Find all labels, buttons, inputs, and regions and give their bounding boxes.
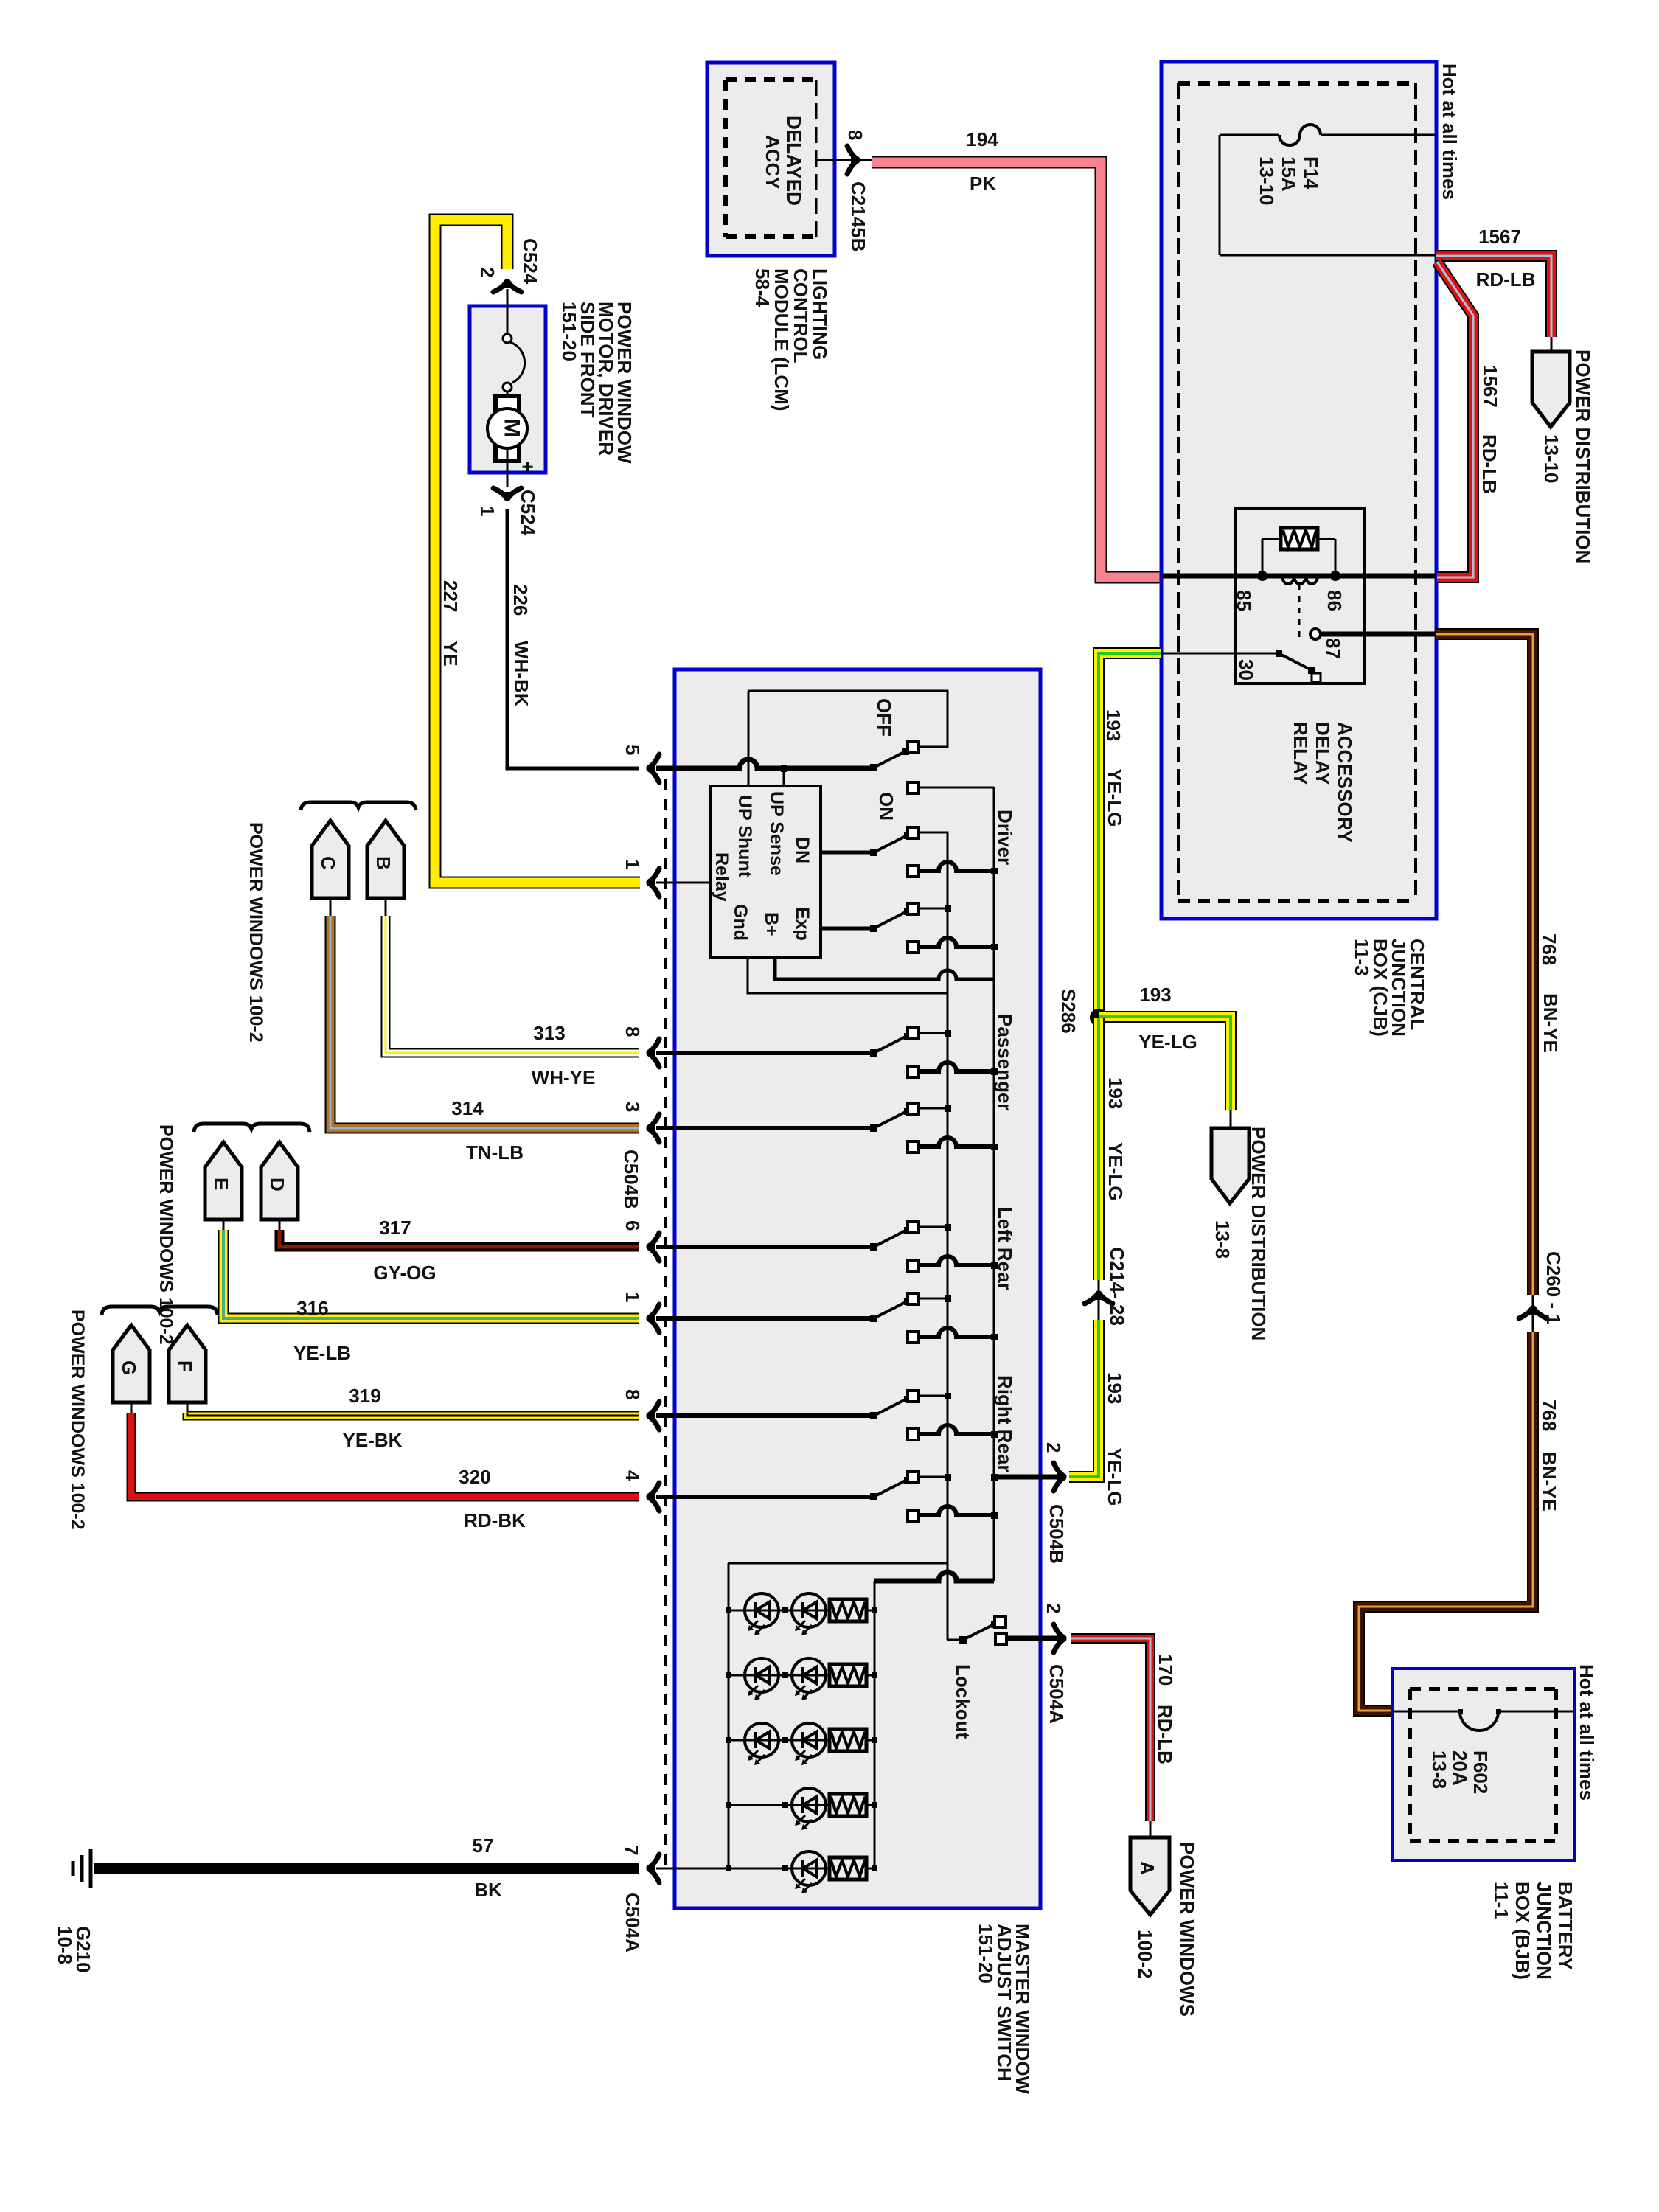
svg-text:C524: C524: [519, 238, 541, 285]
svg-text:20A: 20A: [1449, 1750, 1471, 1786]
motor M symbol: [495, 396, 519, 461]
switch up contact: [908, 1293, 919, 1304]
C260-1 connector lead: [1532, 1295, 1534, 1332]
down contact wire to feed bus: [919, 938, 994, 947]
feed bus (B+): [993, 787, 995, 1581]
switch up contact: [908, 827, 919, 838]
pin 2 C504B wire from feed bus: [994, 1475, 1063, 1480]
switch up contact: [908, 1028, 919, 1039]
pin 1 arrow C524: [493, 488, 507, 498]
brace over connectors G and F: [102, 1307, 218, 1315]
svg-text:B: B: [372, 856, 394, 870]
wire 193 YE-LG branch to power distribution: [1099, 1017, 1231, 1110]
svg-text:13-8: 13-8: [1211, 1220, 1234, 1259]
svg-text:ON: ON: [875, 792, 897, 821]
svg-text:314: 314: [451, 1097, 484, 1119]
connector G: [113, 1325, 150, 1402]
svg-text:B+: B+: [761, 912, 782, 936]
connector F: [169, 1325, 206, 1402]
up contact wire to ground bus: [919, 1032, 947, 1034]
svg-text:Relay: Relay: [712, 852, 732, 902]
OFF contact: [908, 742, 919, 753]
relay coil wire 85-86: [1161, 574, 1436, 579]
svg-text:UP Sense: UP Sense: [766, 791, 787, 876]
svg-text:DELAYED: DELAYED: [783, 116, 805, 206]
svg-text:RD-LB: RD-LB: [1478, 434, 1500, 494]
ground bus branch to LEDs: [728, 1562, 947, 1565]
svg-text:G: G: [118, 1360, 140, 1375]
svg-text:2: 2: [1043, 1603, 1065, 1613]
master window adjust switch box: [675, 669, 1040, 1908]
svg-text:YE-LG: YE-LG: [1104, 1447, 1126, 1506]
wire 193 YE-LG main down to C214: [1093, 1018, 1105, 1280]
relay contact 30 terminal: [1312, 673, 1321, 682]
wire 313 WH-YE: [386, 916, 639, 1053]
svg-text:DN: DN: [792, 837, 813, 863]
svg-text:768: 768: [1538, 933, 1560, 965]
motor circuit breaker: [507, 306, 509, 334]
svg-text:DELAY: DELAY: [1312, 722, 1334, 785]
LCM pin 8 lead: [816, 159, 872, 161]
svg-text:S286: S286: [1057, 989, 1079, 1034]
LED indicator 5: [792, 1851, 826, 1885]
svg-text:87: 87: [1322, 638, 1344, 659]
svg-text:11-3: 11-3: [1351, 939, 1373, 976]
LED right bus: [874, 1581, 876, 1868]
svg-text:TN-LB: TN-LB: [466, 1141, 524, 1164]
LED row 3 wire: [728, 1739, 874, 1742]
svg-text:193: 193: [1102, 709, 1124, 741]
LED resistor 4: [829, 1794, 866, 1816]
svg-text:2: 2: [1043, 1442, 1065, 1453]
switch arm pivot: [870, 1243, 877, 1251]
wire 1567 RD-LB to relay 86: [1437, 262, 1473, 577]
svg-text:13-8: 13-8: [1428, 1750, 1450, 1789]
pin 8 arrow C2145B: [847, 146, 858, 159]
svg-text:7: 7: [620, 1845, 642, 1855]
switch arm pivot: [870, 1124, 877, 1132]
fuse F14 15A 13-10: [1219, 135, 1221, 255]
svg-text:11-1: 11-1: [1490, 1882, 1512, 1919]
LED indicator 1b: [792, 1593, 826, 1627]
motor pin 1 lead: [507, 473, 509, 487]
down contact wire to feed bus: [919, 862, 994, 871]
svg-text:WH-BK: WH-BK: [510, 641, 532, 707]
electronics Exp output: [821, 927, 874, 931]
svg-text:8: 8: [622, 1026, 644, 1037]
wire 193 YE-LG to master switch pin 2: [1069, 1320, 1099, 1477]
svg-text:151-20: 151-20: [975, 1924, 997, 1983]
svg-text:UP Shunt: UP Shunt: [734, 795, 755, 878]
connector dashed line C504: [664, 779, 667, 1868]
svg-text:OFF: OFF: [873, 698, 895, 737]
ON contact: [908, 782, 919, 793]
LED row 2 wire: [728, 1674, 874, 1677]
LED indicator 1a: [745, 1593, 779, 1627]
connector E lead: [223, 1219, 225, 1230]
central junction box (CJB): [1161, 62, 1436, 919]
motor pin 2 lead: [507, 289, 509, 306]
svg-text:Hot at all times: Hot at all times: [1439, 63, 1461, 200]
ground bus: [947, 833, 949, 1640]
switch arm pivot: [870, 1493, 877, 1500]
battery junction box (BJB): [1392, 1669, 1574, 1860]
LED left bus: [728, 1563, 730, 1868]
svg-text:13-10: 13-10: [1540, 434, 1562, 484]
svg-text:POWER WINDOWS: POWER WINDOWS: [1176, 1842, 1198, 2017]
svg-text:319: 319: [349, 1385, 380, 1407]
svg-text:RELAY: RELAY: [1290, 722, 1312, 785]
switch up contact: [908, 1472, 919, 1483]
svg-text:15A: 15A: [1278, 156, 1300, 192]
svg-text:1567: 1567: [1479, 365, 1501, 408]
C214-28 arrow: [1085, 1293, 1098, 1304]
svg-text:BATTERY: BATTERY: [1554, 1882, 1576, 1970]
lockout switch: [947, 1639, 963, 1641]
electronics Gnd wire to ground bus: [748, 957, 947, 993]
relay switch arm: [1279, 653, 1312, 670]
relay coil bumps: [1282, 576, 1318, 584]
svg-text:POWER DISTRIBUTION: POWER DISTRIBUTION: [1572, 349, 1594, 563]
svg-text:316: 316: [296, 1297, 328, 1319]
svg-text:C504A: C504A: [1046, 1664, 1068, 1724]
relay actuator dashed line: [1298, 584, 1301, 643]
LED row 5 wire: [728, 1868, 874, 1870]
svg-text:85: 85: [1233, 590, 1255, 611]
pin 1 arrow: [649, 869, 659, 882]
svg-text:Gnd: Gnd: [730, 904, 751, 941]
relay contact 87: [1310, 629, 1321, 639]
svg-text:WH-YE: WH-YE: [532, 1066, 596, 1088]
wire 1567 RD-LB to power distribution: [1436, 256, 1551, 337]
svg-text:C2145B: C2145B: [847, 181, 869, 251]
wire 194 PK: [872, 162, 1161, 577]
wire 320 RD-BK: [131, 1413, 639, 1497]
svg-text:320: 320: [459, 1466, 490, 1488]
svg-text:Passenger: Passenger: [994, 1014, 1016, 1111]
svg-text:YE-LG: YE-LG: [1138, 1031, 1197, 1053]
up contact wire to ground bus: [919, 1395, 947, 1397]
svg-text:13-10: 13-10: [1256, 156, 1278, 206]
accessory delay relay box: [1235, 509, 1364, 684]
electronics B+ wire to feed bus: [775, 957, 994, 979]
switch down contact: [908, 1510, 919, 1521]
switch down contact: [908, 1429, 919, 1440]
svg-text:227: 227: [439, 580, 462, 612]
relay coil node 86: [1330, 571, 1340, 581]
LED resistor 1: [829, 1599, 866, 1621]
connector C: [312, 821, 349, 898]
LED resistor 3: [829, 1729, 866, 1751]
svg-text:58-4: 58-4: [751, 268, 773, 307]
wire 227 YE: [435, 220, 640, 883]
pin 2 arrow C504B: [1054, 1463, 1064, 1476]
C260-1 arrow: [1519, 1308, 1532, 1318]
relay shunt resistor: [1262, 539, 1264, 576]
switch down contact: [908, 1260, 919, 1271]
wire 226 WH-BK: [507, 509, 639, 768]
svg-text:1: 1: [622, 1292, 644, 1302]
svg-text:RD-LB: RD-LB: [1154, 1705, 1176, 1764]
svg-text:POWER WINDOWS 100-2: POWER WINDOWS 100-2: [67, 1310, 88, 1530]
switch pin 1 wire entry: [656, 1316, 874, 1321]
svg-text:POWER DISTRIBUTION: POWER DISTRIBUTION: [1248, 1127, 1270, 1340]
pin 7 arrow C504A: [649, 1854, 659, 1868]
svg-text:Exp: Exp: [792, 907, 813, 941]
brace over connectors E and D: [194, 1124, 310, 1132]
switch up contact: [908, 1222, 919, 1233]
svg-text:JUNCTION: JUNCTION: [1533, 1882, 1555, 1980]
switch down contact: [908, 1332, 919, 1343]
switch down contact: [908, 1066, 919, 1077]
brace over connectors C and B: [301, 802, 416, 810]
switch down contact: [908, 1141, 919, 1152]
up contact wire to ground bus: [919, 908, 947, 910]
pin 2 arrow C524: [493, 282, 507, 292]
svg-text:ACCESSORY: ACCESSORY: [1334, 722, 1356, 843]
svg-text:86: 86: [1324, 590, 1346, 611]
svg-text:BN-YE: BN-YE: [1538, 1452, 1560, 1512]
wire 319 YE-BK: [187, 1413, 639, 1416]
BJB inner dashed outline: [1410, 1687, 1556, 1691]
svg-text:C504A: C504A: [622, 1893, 644, 1952]
power windows connector A: [1130, 1837, 1169, 1915]
svg-text:3: 3: [622, 1102, 644, 1112]
splice S286: [1090, 1009, 1107, 1026]
switch up contact: [908, 1103, 919, 1114]
svg-text:6: 6: [622, 1220, 644, 1231]
power window motor box: [470, 306, 546, 473]
svg-text:151-20: 151-20: [558, 302, 580, 361]
svg-text:193: 193: [1104, 1372, 1126, 1404]
switch up contact: [908, 1391, 919, 1402]
svg-text:193: 193: [1105, 1077, 1127, 1109]
svg-text:RD-LB: RD-LB: [1476, 268, 1536, 291]
connector E: [205, 1142, 242, 1220]
down contact wire to feed bus: [919, 1138, 994, 1147]
switch arm pivot: [870, 1412, 877, 1419]
svg-text:POWER WINDOWS 100-2: POWER WINDOWS 100-2: [246, 822, 266, 1043]
wire 768 BN-YE upper: [1436, 634, 1533, 1295]
relay switch common 30: [1161, 653, 1279, 655]
svg-text:C214- 28: C214- 28: [1106, 1247, 1128, 1326]
svg-text:100-2: 100-2: [1134, 1930, 1156, 1979]
pin 5 entry: [649, 754, 659, 768]
switch pin 3 wire entry: [656, 1126, 874, 1130]
connector C lead: [330, 898, 332, 916]
switch down contact: [908, 942, 919, 953]
OFF loop wire: [748, 691, 947, 747]
up contact wire to ground bus: [919, 1226, 947, 1228]
switch electronics box: [711, 786, 821, 957]
LED indicator 2b: [792, 1658, 826, 1692]
switch pin 8 wire entry: [656, 1051, 874, 1055]
svg-text:Right Rear: Right Rear: [994, 1375, 1016, 1472]
up contact wire to ground bus: [919, 1298, 947, 1300]
svg-text:A: A: [1136, 1861, 1158, 1875]
svg-text:YE-LB: YE-LB: [293, 1342, 351, 1364]
svg-text:YE-LG: YE-LG: [1104, 768, 1126, 827]
LED indicator 2a: [745, 1658, 779, 1692]
LED row 1 wire: [728, 1610, 874, 1612]
LED indicator 3a: [745, 1723, 779, 1757]
down contact wire to feed bus: [919, 1256, 994, 1265]
LED resistor 2: [829, 1664, 866, 1686]
svg-text:8: 8: [622, 1389, 644, 1399]
svg-text:BOX (BJB): BOX (BJB): [1512, 1882, 1534, 1980]
svg-text:YE-BK: YE-BK: [343, 1429, 403, 1451]
LED resistor 5: [829, 1857, 866, 1879]
svg-text:YE: YE: [439, 641, 462, 667]
fuse F602 20A 13-8: [1392, 1711, 1460, 1713]
wire 316 YE-LB: [223, 1230, 639, 1318]
wire 314 TN-LB: [330, 916, 639, 1128]
LED indicator 4: [792, 1788, 826, 1822]
switch arm pivot: [870, 1049, 877, 1057]
svg-text:F14: F14: [1300, 156, 1322, 189]
svg-text:317: 317: [379, 1217, 411, 1239]
LED indicator 3b: [792, 1723, 826, 1757]
svg-text:F: F: [174, 1360, 196, 1372]
svg-text:F602: F602: [1470, 1750, 1492, 1794]
lighting control module (LCM) box: [707, 63, 835, 256]
switch pin 6 wire entry: [656, 1245, 874, 1249]
svg-text:D: D: [266, 1178, 288, 1192]
connector F lead: [187, 1402, 189, 1413]
relay coil node 85: [1257, 571, 1267, 581]
CJB inner dashed outline: [1178, 81, 1416, 86]
svg-text:2: 2: [476, 267, 498, 277]
svg-text:10-8: 10-8: [54, 1926, 76, 1964]
svg-text:Lockout: Lockout: [952, 1664, 974, 1739]
pin 2 arrow C504A: [1054, 1624, 1064, 1638]
feed bus extension to resistors: [874, 1572, 994, 1581]
switch arm pivot: [870, 849, 877, 856]
svg-text:Left Rear: Left Rear: [994, 1207, 1016, 1290]
electronics Relay output: [821, 851, 874, 855]
svg-text:313: 313: [533, 1022, 565, 1044]
svg-text:226: 226: [509, 584, 532, 616]
svg-text:193: 193: [1139, 984, 1171, 1006]
svg-text:4: 4: [622, 1470, 644, 1481]
svg-text:ACCY: ACCY: [762, 135, 784, 189]
svg-text:BK: BK: [474, 1879, 502, 1901]
connector D lead: [279, 1219, 281, 1230]
svg-text:C504B: C504B: [1046, 1504, 1068, 1564]
switch up contact: [908, 903, 919, 914]
C214-28 connector lead: [1098, 1280, 1100, 1320]
svg-text:170: 170: [1155, 1654, 1177, 1686]
svg-text:C504B: C504B: [620, 1150, 642, 1209]
wire 768 BN-YE lower: [1359, 1332, 1533, 1711]
power distribution 13-8 connector: [1211, 1128, 1249, 1203]
svg-text:C524: C524: [517, 490, 539, 536]
svg-text:C260 - 1: C260 - 1: [1543, 1251, 1565, 1325]
switch pin 4 wire entry: [656, 1495, 874, 1499]
wire 170 RD-LB: [1071, 1638, 1150, 1821]
svg-text:8: 8: [844, 130, 866, 140]
OFF/ON switch arm: [870, 764, 877, 771]
connector G lead: [131, 1402, 133, 1413]
svg-text:57: 57: [473, 1834, 494, 1857]
down contact wire to feed bus: [919, 1062, 994, 1071]
svg-text:Driver: Driver: [994, 810, 1016, 865]
svg-text:768: 768: [1538, 1399, 1560, 1431]
pin 5 thick wire with hop: [656, 759, 874, 768]
LCM inner dashed outline: [726, 77, 816, 82]
svg-text:PK: PK: [970, 173, 996, 195]
pin 7 lead to LED bus: [656, 1868, 728, 1870]
svg-text:C: C: [317, 856, 339, 870]
switch arm pivot: [870, 925, 877, 932]
ON wire to bus: [919, 787, 994, 789]
wire 57 BK: [94, 1863, 639, 1874]
relay 87 output wire: [1321, 632, 1436, 637]
connector D: [261, 1142, 298, 1220]
lead to power distribution 13-10: [1551, 337, 1553, 352]
up contact wire to ground bus: [919, 1476, 947, 1478]
up contact wire to ground bus: [919, 1107, 947, 1110]
ground G210: [89, 1849, 93, 1888]
switch down contact: [908, 866, 919, 877]
svg-text:+: +: [517, 461, 540, 473]
svg-text:BN-YE: BN-YE: [1540, 993, 1562, 1053]
svg-text:30: 30: [1235, 659, 1257, 681]
svg-text:1567: 1567: [1478, 226, 1521, 248]
svg-text:E: E: [210, 1178, 232, 1190]
wire 193 YE-LG from relay 30: [1099, 653, 1161, 1018]
switch arm pivot: [870, 1315, 877, 1322]
down contact wire to feed bus: [919, 1328, 994, 1337]
connector B lead: [385, 898, 387, 916]
svg-text:1: 1: [622, 859, 644, 869]
wire 317 GY-OG: [279, 1230, 639, 1247]
pin 1 lead into electronics box: [656, 882, 711, 884]
svg-text:RD-BK: RD-BK: [464, 1509, 526, 1531]
switch pin 8 wire entry: [656, 1413, 874, 1418]
pin 2 C504A wire: [1006, 1636, 1063, 1641]
svg-text:194: 194: [966, 128, 998, 150]
svg-text:5: 5: [622, 745, 644, 755]
svg-text:M: M: [500, 419, 524, 437]
LED row 4 wire: [728, 1804, 874, 1806]
connector B: [367, 821, 404, 898]
svg-text:1: 1: [476, 506, 498, 516]
junction electronics box to pin5 wire: [783, 768, 785, 786]
svg-text:YE-LG: YE-LG: [1105, 1142, 1127, 1200]
down contact wire to feed bus: [919, 1425, 994, 1434]
svg-text:Hot at all times: Hot at all times: [1576, 1664, 1598, 1801]
up contact wire starts ground bus: [919, 832, 947, 833]
svg-text:GY-OG: GY-OG: [373, 1262, 436, 1284]
down contact wire to feed bus: [919, 1506, 994, 1515]
power distribution 13-10 connector: [1532, 352, 1570, 427]
